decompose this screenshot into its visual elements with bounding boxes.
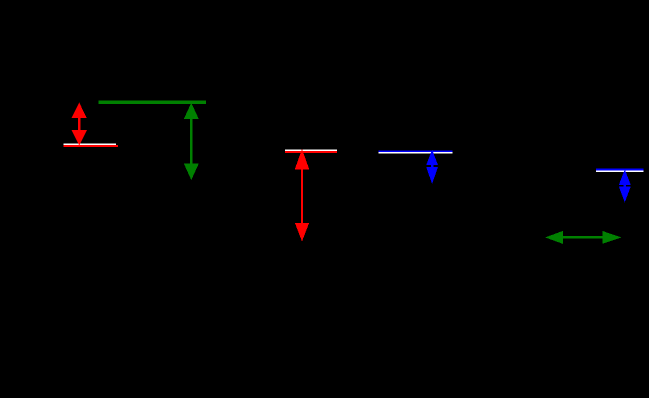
level pair A red line <box>64 145 118 147</box>
blue double arrow D (small gap) <box>619 169 631 202</box>
level pair A white line <box>64 144 117 146</box>
level pair B red line <box>285 151 337 153</box>
level A upper green line <box>98 101 206 104</box>
red double arrow B (large gap) <box>295 149 310 242</box>
level pair C white line <box>378 152 452 154</box>
blue double arrow C (small gap) <box>426 150 438 184</box>
red double arrow A (small gap) <box>71 103 87 146</box>
green double arrow A (large gap) <box>184 103 199 180</box>
level pair D white line <box>596 170 643 172</box>
level pair C blue line <box>378 150 452 152</box>
level pair B white line <box>285 149 337 151</box>
level pair D blue line <box>596 169 643 171</box>
green horizontal double arrow (distance) <box>545 231 621 244</box>
